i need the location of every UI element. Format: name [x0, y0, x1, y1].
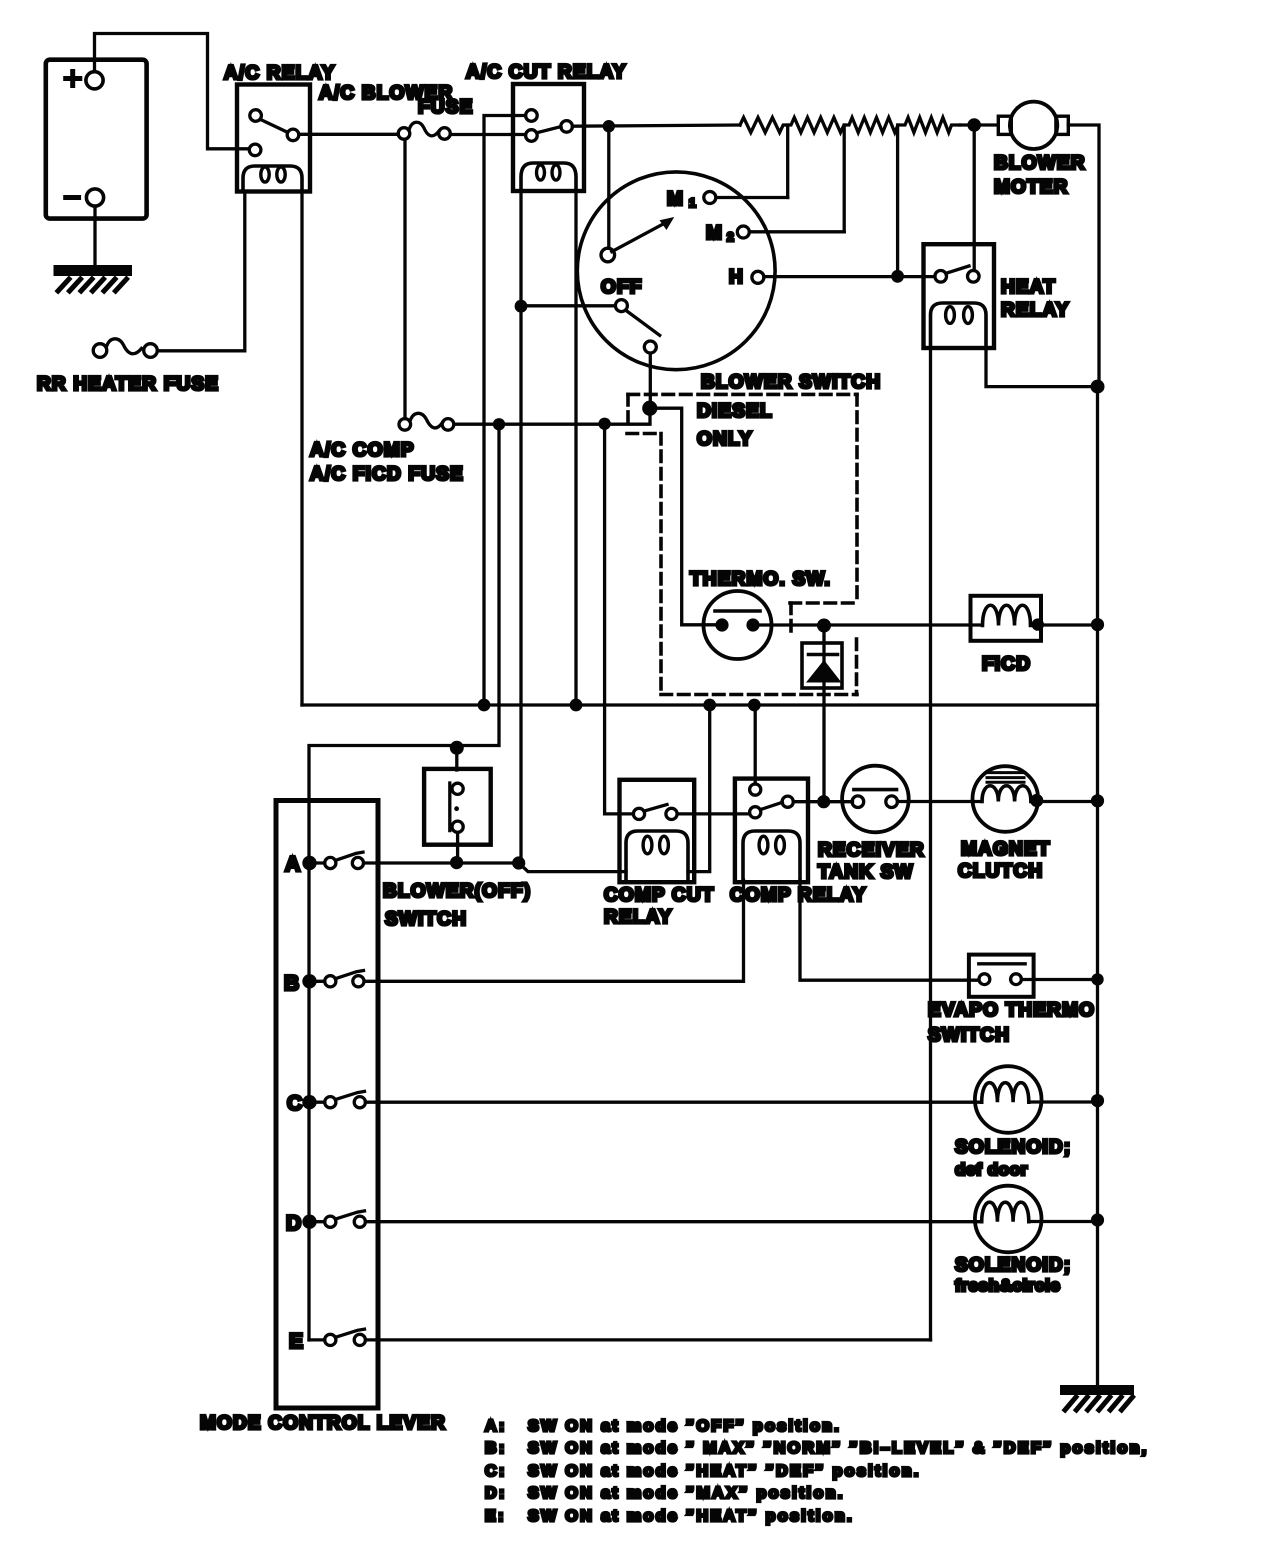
svg-text:SW ON at mode ”HEAT” position.: SW ON at mode ”HEAT” position. [528, 1508, 854, 1525]
wire M1 to resistor tap [716, 196, 788, 199]
wire FICD to right bus [1031, 623, 1098, 626]
switch C [309, 1091, 365, 1107]
svg-text:A/C CUT RELAY: A/C CUT RELAY [466, 62, 627, 83]
wire tap M2 [843, 125, 846, 232]
wire heat relay coil left down to E row [929, 348, 932, 1340]
wire resistor end to motor [960, 123, 998, 126]
junction dot bus x710 [703, 699, 716, 712]
wire A/C cut relay right pin to resistors [572, 125, 740, 126]
svg-text:SOLENOID;: SOLENOID; [955, 1137, 1071, 1158]
ground (right bus) [1065, 1390, 1133, 1410]
svg-text:SOLENOID;: SOLENOID; [955, 1255, 1071, 1276]
svg-text:BLOWER(OFF): BLOWER(OFF) [383, 881, 531, 902]
junction dot right bus clutch row [1091, 794, 1104, 807]
svg-text:SW ON at mode ”MAX” position.: SW ON at mode ”MAX” position. [528, 1485, 845, 1502]
wire junction down to heat relay right pin [973, 125, 976, 271]
junction dot clutch coil right [1030, 794, 1043, 807]
svg-text:2: 2 [727, 230, 734, 244]
battery B1 [46, 60, 147, 219]
svg-text:COMP RELAY: COMP RELAY [730, 885, 867, 906]
svg-text:E:: E: [485, 1508, 506, 1525]
wire x605 down to comp cut relay switch [605, 424, 634, 814]
wire heat relay coil right to right bus [986, 348, 1098, 387]
svg-text:MOTER: MOTER [994, 177, 1069, 198]
svg-text:A: A [285, 853, 300, 876]
wire comp cut switch right to comp relay [677, 812, 749, 815]
right bus wire [1096, 387, 1099, 1385]
resistor R1-R4 chain [740, 118, 960, 133]
switch E [309, 1329, 365, 1345]
wire comp fuse to blower switch bottom pin riser [454, 408, 650, 424]
svg-text:def door: def door [955, 1160, 1028, 1179]
wire M2 to resistor tap [749, 230, 844, 233]
receiver tank switch S4 [842, 766, 909, 833]
svg-text:fresh&circle: fresh&circle [955, 1276, 1060, 1295]
dashed box BLOWER SWITCH / DIESEL ONLY [627, 394, 857, 694]
wiper arrow [612, 217, 674, 252]
svg-text:BLOWER: BLOWER [994, 153, 1086, 174]
wire A row [364, 861, 519, 864]
wire A/C relay right pin to blower fuse [299, 133, 399, 136]
wire D row to solenoid 2 [366, 1220, 982, 1223]
switch A [309, 852, 364, 868]
svg-text:OFF: OFF [601, 277, 643, 298]
blower switch S1 (rotary) [577, 172, 775, 370]
junction dot H tap [891, 270, 904, 283]
svg-text:B: B [284, 972, 299, 995]
svg-text:A/C COMP: A/C COMP [310, 440, 415, 461]
heat relay K3 [924, 244, 995, 348]
svg-text:FUSE: FUSE [418, 97, 473, 118]
wire comp relay right pin to receiver tank sw [793, 800, 852, 803]
wire solenoid 1 to right bus [1029, 1100, 1098, 1103]
OFF contact blade [627, 311, 660, 335]
wire comp cut coil right to bus [688, 705, 710, 872]
svg-text:BLOWER SWITCH: BLOWER SWITCH [701, 372, 881, 393]
svg-text:A/C FICD FUSE: A/C FICD FUSE [310, 464, 464, 485]
svg-text:MODE CONTROL LEVER: MODE CONTROL LEVER [200, 1413, 446, 1434]
svg-text:A:: A: [485, 1418, 507, 1435]
junction dot bus x754 [748, 699, 761, 712]
junction dot blower switch bottom node [642, 401, 657, 416]
wire A/C cut relay upper pin to left drop [484, 116, 526, 706]
junction dot B left [302, 974, 316, 988]
svg-text:MAGNET: MAGNET [961, 839, 1051, 860]
wire RR heater fuse to A/C relay coil left [158, 192, 245, 351]
junction dot right bus C row [1091, 1094, 1104, 1107]
wire node to thermo switch [650, 408, 716, 625]
svg-text:M: M [667, 189, 684, 210]
svg-text:EVAPO THERMO: EVAPO THERMO [928, 1000, 1095, 1021]
junction dot A blower-off [450, 856, 463, 869]
wire A/C relay coil right down to bus corner [300, 192, 303, 705]
svg-text:H: H [729, 267, 744, 288]
svg-text:CLUTCH: CLUTCH [958, 861, 1043, 882]
wire E row to heat relay coil drop [366, 1338, 931, 1341]
junction dot fuse wire x499 [493, 418, 505, 430]
junction dot blower-off top [450, 741, 464, 755]
svg-text:SW ON at mode ”HEAT” ”DEF” pos: SW ON at mode ”HEAT” ”DEF” position. [528, 1463, 921, 1480]
svg-text:RELAY: RELAY [1001, 300, 1070, 321]
wire A/C cut relay coil right down to bus [574, 191, 577, 705]
wire OFF pin to coil drop [521, 304, 615, 307]
wire blower switch bottom pin [649, 353, 652, 404]
junction dot A left [302, 856, 316, 870]
svg-text:FICD: FICD [982, 654, 1031, 675]
wire fuse left terminal down to A/C comp fuse [403, 139, 406, 418]
solenoid L4 (fresh&circle) [975, 1186, 1042, 1253]
ground (battery) [58, 271, 127, 292]
wire tap H [896, 125, 899, 276]
wire receiver to magnet clutch [898, 800, 983, 803]
wire C row to solenoid 1 [366, 1101, 982, 1104]
switch D [309, 1211, 365, 1227]
svg-text:C:: C: [485, 1463, 507, 1480]
FICD solenoid L1 [971, 596, 1042, 641]
mode control lever box [276, 801, 378, 1409]
svg-text:COMP CUT: COMP CUT [604, 885, 715, 906]
wire battery + to A/C relay pin [95, 34, 250, 149]
fuse F2 (RR heater fuse) [93, 339, 157, 357]
junction dot bus x484 [478, 699, 491, 712]
svg-text:A/C RELAY: A/C RELAY [224, 63, 335, 84]
magnet clutch L2 [973, 766, 1039, 832]
wire clutch to right bus [1031, 800, 1098, 803]
svg-text:HEAT: HEAT [1001, 277, 1056, 298]
svg-text:RECEIVER: RECEIVER [818, 840, 925, 861]
switch B [309, 971, 364, 987]
blower(off) switch S3 [424, 748, 491, 862]
wire comp relay coil right to evapo [800, 880, 979, 980]
svg-text:THERMO. SW.: THERMO. SW. [690, 569, 831, 590]
wire A/C cut relay coil left down to A row [519, 191, 522, 863]
junction dot right bus D row [1091, 1213, 1104, 1226]
fuse F1 (A/C blower fuse) [398, 122, 450, 139]
wire tap M1 [786, 125, 789, 198]
svg-text:D:: D: [485, 1485, 507, 1502]
junction dot D left [302, 1215, 316, 1229]
wire thermo to FICD [753, 623, 982, 626]
svg-text:SWITCH: SWITCH [385, 909, 467, 930]
A/C cut relay K2 [513, 84, 584, 191]
junction dot resistor/motor [967, 118, 981, 132]
wire x499 down to A-row feed [309, 424, 499, 1340]
comp relay K5 [735, 779, 808, 883]
svg-text:RR HEATER FUSE: RR HEATER FUSE [37, 374, 219, 395]
diode D1 [802, 632, 842, 802]
svg-text:ONLY: ONLY [697, 429, 753, 450]
svg-text:D: D [286, 1212, 301, 1235]
svg-text:SW ON at mode ”OFF” position.: SW ON at mode ”OFF” position. [528, 1418, 841, 1435]
junction dot OFF wire [515, 300, 528, 313]
A/C relay K1 [237, 85, 310, 192]
svg-text:C: C [287, 1092, 302, 1115]
junction dot A right [512, 856, 525, 869]
wire A row to comp cut coil [519, 863, 626, 872]
wire dot down to blower switch pivot [607, 126, 610, 248]
wire H pin to heat relay left pin [764, 275, 935, 278]
wire comp relay upper pin to bus [754, 705, 757, 784]
junction dot right bus evapo row [1091, 973, 1103, 985]
junction dot C left [302, 1095, 316, 1109]
main bus wire (horizontal) [302, 703, 1098, 706]
junction dot FICD right [1032, 618, 1044, 630]
svg-text:SWITCH: SWITCH [928, 1025, 1010, 1046]
thermo switch S2 [704, 591, 772, 659]
wire evapo to right bus [1022, 978, 1098, 981]
junction dot thermo right / diode node [817, 619, 831, 633]
svg-text:B:: B: [485, 1440, 507, 1457]
solenoid L3 (def door) [975, 1066, 1042, 1133]
wire solenoid 2 to right bus [1029, 1220, 1098, 1223]
junction dot right bus top [1091, 380, 1105, 394]
junction dot fuse wire x605 [598, 418, 610, 430]
svg-text:E: E [289, 1330, 303, 1353]
svg-text:RELAY: RELAY [604, 907, 673, 928]
junction dot right-pin wire [603, 120, 615, 132]
fuse F3 (A/C comp / FICD fuse) [399, 413, 454, 430]
comp cut relay K4 [620, 780, 695, 882]
wire blower fuse to A/C cut relay [450, 133, 525, 136]
wire motor right to right bus top [1068, 125, 1099, 387]
svg-text:M: M [706, 223, 723, 244]
svg-text:TANK SW: TANK SW [818, 862, 914, 883]
junction dot right bus FICD row [1091, 618, 1104, 631]
wire B row to comp relay coil left [364, 880, 743, 981]
evapo thermo switch S5 [969, 955, 1034, 997]
svg-text:SW ON at mode ” MAX” ”NORM” ”B: SW ON at mode ” MAX” ”NORM” ”BI–LEVEL” &… [528, 1440, 1149, 1457]
blower motor M [998, 102, 1068, 149]
junction dot diode/receiver node [817, 795, 830, 808]
svg-text:1: 1 [689, 196, 696, 210]
wire battery - to ground [93, 206, 96, 264]
junction dot bus x576 [570, 699, 583, 712]
svg-text:DIESEL: DIESEL [697, 401, 773, 422]
